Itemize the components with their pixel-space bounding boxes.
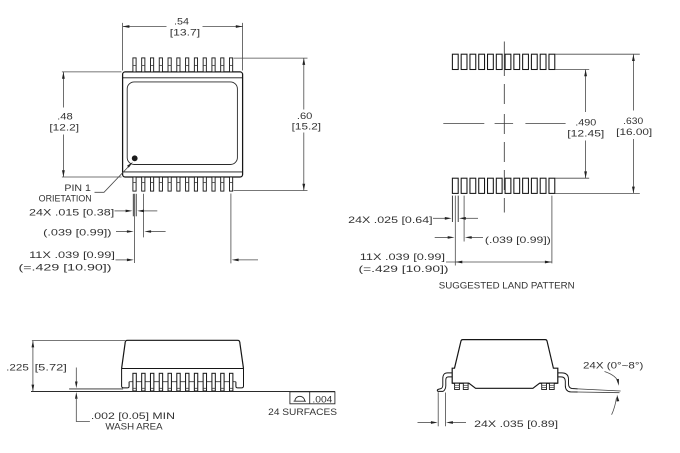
dimension .48 [12.2] body height <box>49 72 121 177</box>
svg-text:[13.7]: [13.7] <box>170 28 200 38</box>
side view: wash area line <box>69 388 123 390</box>
svg-text:.54: .54 <box>174 16 189 26</box>
svg-text:[15.2]: [15.2] <box>292 122 321 132</box>
top view: bottom pin row (pins 1-12) <box>133 177 233 191</box>
front view: hidden pin ends under body <box>455 383 555 389</box>
flatness feature control frame .004 / 24 surfaces <box>268 392 337 417</box>
dimension .60 [15.2] overall height <box>234 58 321 190</box>
pin 1 label with leader <box>39 162 133 203</box>
svg-text:.48: .48 <box>57 111 73 121</box>
svg-text:[16.00]: [16.00] <box>616 127 652 137</box>
dimension (.039 [0.99]) pin pitch <box>43 227 165 237</box>
svg-text:[12.45]: [12.45] <box>567 129 604 139</box>
dimension .490 [12.45] pad inner span <box>555 70 604 179</box>
svg-text:PIN 1: PIN 1 <box>64 183 91 193</box>
svg-text:[12.2]: [12.2] <box>49 122 79 132</box>
dimension 11X .039 (=.429) pad row span <box>359 252 552 274</box>
svg-text:(.039 [0.99]): (.039 [0.99]) <box>43 227 111 237</box>
land pattern: top pad row <box>452 54 554 69</box>
svg-text:.490: .490 <box>575 117 596 127</box>
land pattern: horizontal centreline <box>443 123 565 125</box>
extension lines below bottom pins <box>133 194 231 264</box>
svg-text:SUGGESTED LAND PATTERN: SUGGESTED LAND PATTERN <box>439 281 575 291</box>
svg-text:(=.429 [10.90]): (=.429 [10.90]) <box>19 263 112 273</box>
svg-text:.002 [0.05] MIN: .002 [0.05] MIN <box>91 411 175 421</box>
svg-text:[5.72]: [5.72] <box>35 363 67 373</box>
svg-text:24X (0°~8°): 24X (0°~8°) <box>583 361 643 371</box>
dimension 24X .035 [0.89] lead width <box>418 392 559 429</box>
land pattern: bottom pad row <box>452 178 554 193</box>
svg-text:ORIETATION: ORIETATION <box>39 193 92 203</box>
dimension 24X .025 [0.64] pad width <box>348 215 478 225</box>
side view: body outline <box>122 340 244 388</box>
dimension .225 [5.72] height <box>6 341 125 392</box>
dimension 24X .015 [0.38] pin width <box>29 208 157 218</box>
side view: pin row <box>133 373 233 391</box>
svg-text:.225: .225 <box>6 362 29 372</box>
top view: pin 1 orientation dot <box>132 155 138 161</box>
front view: left gull-wing lead <box>437 373 452 392</box>
svg-text:24X .025 [0.64]: 24X .025 [0.64] <box>348 215 432 225</box>
extension lines below bottom pads <box>452 196 552 266</box>
svg-text:11X .039 [0.99]: 11X .039 [0.99] <box>29 250 115 260</box>
top view: body inner rounded outline <box>127 82 237 165</box>
svg-text:24X .015 [0.38]: 24X .015 [0.38] <box>29 208 114 218</box>
dimension .002 [0.05] min wash area <box>75 368 175 432</box>
land pattern: vertical centreline <box>503 42 505 213</box>
front view: right gull-wing lead and foot <box>558 373 578 392</box>
front view: lead angle reference wedge lines <box>578 389 621 393</box>
top view: top pin row (pins 13-24) <box>133 58 233 72</box>
front view: body outline <box>452 340 558 389</box>
svg-text:(.039 [0.99]): (.039 [0.99]) <box>485 235 551 245</box>
svg-text:WASH AREA: WASH AREA <box>105 422 162 432</box>
dimension (.039 [0.99]) pad pitch <box>435 235 551 245</box>
dimension 24X (0~8 deg) lead angle <box>583 361 643 415</box>
dimension .54 [13.7] overall width <box>123 16 243 70</box>
svg-text:11X .039 [0.99]: 11X .039 [0.99] <box>360 252 445 262</box>
svg-text:.004: .004 <box>312 395 332 405</box>
svg-text:24 SURFACES: 24 SURFACES <box>268 407 337 417</box>
side view: seating plane line <box>31 391 335 393</box>
dimension 11X .039 (=.429) pin row span <box>19 250 259 272</box>
top view: package body outline <box>123 72 243 177</box>
svg-text:24X .035 [0.89]: 24X .035 [0.89] <box>474 419 558 429</box>
dimension .630 [16.00] pad outer span <box>555 54 652 193</box>
svg-text:.630: .630 <box>623 116 643 126</box>
svg-text:.60: .60 <box>297 111 313 121</box>
svg-text:(=.429 [10.90]): (=.429 [10.90]) <box>359 264 449 274</box>
